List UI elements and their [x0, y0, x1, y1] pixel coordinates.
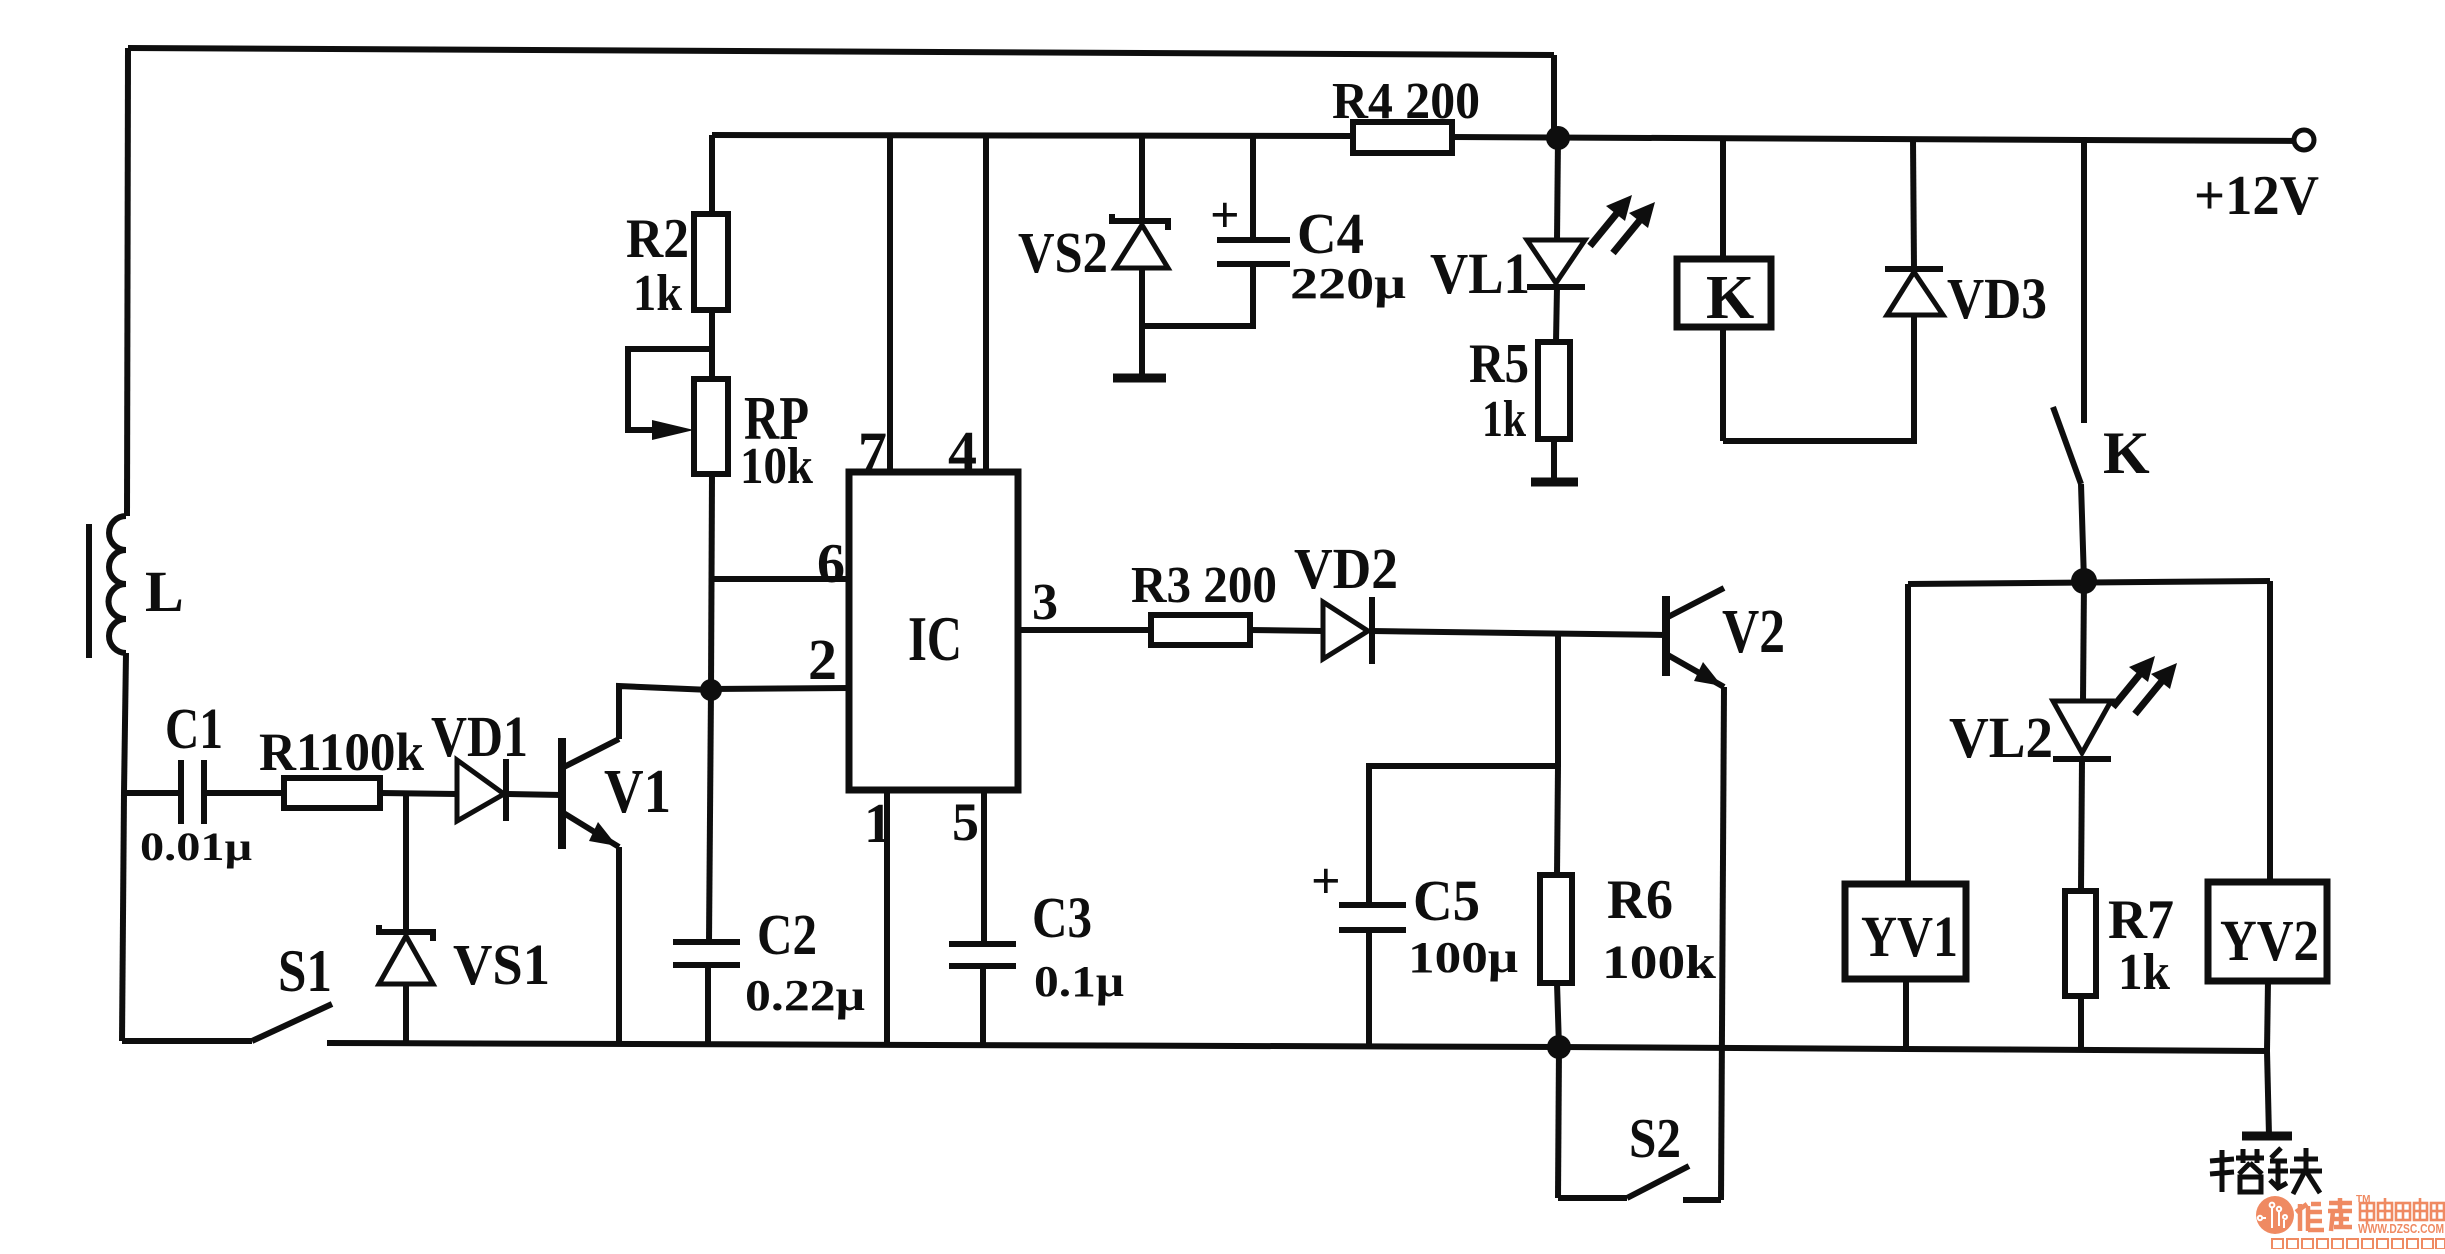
- capacitor C5 bottom plate: [1339, 927, 1406, 933]
- wire VL2 anode: [2083, 581, 2084, 701]
- wire pin 5 down to C3: [981, 790, 987, 944]
- wire V1 collector up and to node 2 junction: [619, 686, 711, 739]
- wire ground rail to chassis ground: [2267, 1051, 2269, 1136]
- svg-text:S2: S2: [1629, 1108, 1681, 1170]
- svg-text:WWW.DZSC.COM: WWW.DZSC.COM: [2358, 1221, 2444, 1236]
- wire from inductor down to C1 node: [124, 653, 126, 793]
- wire K switch to contact junction: [2081, 484, 2084, 581]
- transistor V2 emitter diagonal: [1666, 654, 1724, 687]
- svg-text:+: +: [1311, 853, 1341, 910]
- watermark weiku characters: [2296, 1198, 2352, 1231]
- LED VL1 light arrow b: [1613, 214, 1645, 253]
- switch K blade: [2053, 407, 2081, 484]
- svg-text:K: K: [1706, 264, 1754, 332]
- transistor V1 collector diagonal: [562, 739, 619, 768]
- wire VS1 tap from base wire: [403, 794, 409, 930]
- svg-text:1k: 1k: [2118, 944, 2170, 1001]
- wire pin 4: [983, 136, 989, 472]
- svg-text:VS1: VS1: [453, 932, 550, 997]
- watermark small hanzi row2: [2272, 1239, 2445, 1249]
- +12V rail left segment: [712, 135, 1353, 136]
- resistor R7: [2065, 891, 2096, 996]
- wire pin 7: [887, 135, 893, 472]
- LED VL1 light arrow a: [1590, 207, 1622, 246]
- wire pin 2: [711, 688, 849, 689]
- wire R1 to VD1: [380, 793, 457, 794]
- svg-text:+12V: +12V: [2194, 165, 2319, 227]
- node junction dot at K contact / VL2: [2071, 568, 2097, 594]
- ground rail left segment to S1: [122, 1038, 252, 1044]
- resistor R6: [1540, 875, 1572, 983]
- chassis ground text da-tie (drawn strokes): [2210, 1148, 2322, 1194]
- svg-text:VD3: VD3: [1947, 266, 2047, 331]
- wire C5 to ground rail: [1366, 930, 1372, 1047]
- wire down to YV1: [1905, 584, 1911, 884]
- svg-text:4: 4: [948, 419, 977, 484]
- wire K coil bottom link to VD3 anode: [1723, 315, 1914, 441]
- svg-text:7: 7: [858, 420, 887, 485]
- switch S2 right contact: [1683, 1197, 1721, 1203]
- resistor R5: [1538, 342, 1570, 439]
- LED VL1 cathode bar: [1527, 284, 1585, 290]
- wire RP bottom down to node 2 junction: [711, 474, 712, 690]
- wire K coil bottom to V2 collector: [1720, 327, 1726, 441]
- resistor R4: [1353, 122, 1452, 153]
- svg-text:100k: 100k: [1602, 936, 1716, 989]
- wire from C1 node down to bottom-left corner: [122, 793, 124, 1041]
- wire bracket to C5: [1369, 766, 1558, 905]
- svg-text:5: 5: [952, 792, 979, 852]
- svg-text:1k: 1k: [633, 265, 682, 322]
- capacitor C4 bottom plate: [1217, 261, 1290, 267]
- resistor R2: [694, 214, 728, 310]
- resistor R1: [284, 778, 380, 808]
- svg-text:C4: C4: [1297, 201, 1364, 266]
- wire V1 emitter down to ground rail: [616, 847, 622, 1046]
- LED VL2 light arrow b: [2135, 675, 2167, 714]
- wire YV1 to ground rail: [1903, 979, 1909, 1049]
- transistor V2 base bar: [1662, 596, 1670, 676]
- svg-text:0.22μ: 0.22μ: [745, 971, 865, 1020]
- wire junction down to C2: [709, 690, 711, 942]
- watermark small hanzi row1: [2360, 1198, 2444, 1224]
- wire bracket down to R6: [1557, 766, 1558, 875]
- capacitor C3 bottom plate: [949, 963, 1016, 969]
- svg-text:VL2: VL2: [1949, 705, 2053, 770]
- node junction dot at pin2/V1 collector/C2: [700, 679, 722, 701]
- potentiometer RP wiper arrowhead: [652, 420, 694, 440]
- chassis ground bar: [2242, 1132, 2292, 1141]
- diode VD2 triangle: [1323, 602, 1368, 659]
- wire R6 to ground rail junction: [1557, 983, 1559, 1047]
- svg-text:IC: IC: [908, 603, 962, 674]
- watermark logo circle: [2256, 1196, 2294, 1234]
- inductor L: [109, 516, 127, 653]
- wire VL1 to R5: [1556, 287, 1557, 342]
- wire VD3 cathode to +12V rail: [1913, 140, 1914, 269]
- capacitor C2 bottom plate: [673, 962, 740, 968]
- potentiometer RP wiper bracket: [628, 349, 712, 430]
- wire R5 to ground: [1551, 439, 1557, 479]
- transistor V1 emitter diagonal: [562, 812, 619, 847]
- zener diode VS1 cathode bar: [379, 925, 433, 941]
- capacitor C4 plus top plate: [1217, 237, 1290, 243]
- ground symbol below VS2: [1113, 374, 1166, 383]
- wire top rail from left corner to drop at x1554: [128, 48, 1554, 55]
- zener diode VS2 cathode bar: [1112, 214, 1168, 230]
- switch S2 blade: [1627, 1166, 1689, 1198]
- switch S1 blade: [252, 1004, 332, 1041]
- svg-text:C1: C1: [165, 696, 223, 761]
- wire IC pin 3 output: [1018, 627, 1151, 633]
- wire VD1 to V1 base: [506, 794, 562, 795]
- +12V terminal circle: [2294, 130, 2314, 150]
- LED VL2 light arrow a: [2113, 668, 2145, 707]
- wire contact crossbar to YV1 and YV2: [1908, 581, 2270, 584]
- wire VL2 to R7: [2081, 759, 2082, 891]
- svg-text:VD2: VD2: [1294, 536, 1398, 601]
- wire pin 6: [711, 576, 849, 582]
- svg-text:6: 6: [817, 533, 845, 595]
- wire C5/R6 tap from base wire: [1555, 633, 1561, 766]
- relay coil K box: [1677, 259, 1771, 327]
- wire pin 1 down to ground rail: [884, 790, 890, 1046]
- relay YV2 box: [2208, 882, 2327, 981]
- svg-text:100μ: 100μ: [1408, 933, 1518, 982]
- wire C1 to R1: [204, 790, 284, 796]
- capacitor C5 plus top plate: [1339, 902, 1406, 908]
- svg-text:V1: V1: [604, 758, 671, 826]
- wire C2 to ground rail: [705, 965, 711, 1045]
- transistor V2 emitter arrowhead: [1694, 662, 1722, 686]
- LED VL2 triangle: [2053, 701, 2111, 753]
- svg-text:0.01μ: 0.01μ: [140, 824, 252, 869]
- svg-text:VL1: VL1: [1430, 241, 1530, 306]
- diode VD3 triangle: [1887, 272, 1943, 315]
- svg-text:C3: C3: [1032, 885, 1092, 950]
- capacitor C1 left plate: [178, 760, 184, 824]
- node junction dot at R6/S2 on ground rail: [1547, 1035, 1571, 1059]
- zener diode VS1 triangle: [379, 936, 433, 984]
- diode VD1 triangle: [457, 760, 504, 821]
- svg-text:R7: R7: [2108, 889, 2174, 951]
- svg-text:220μ: 220μ: [1290, 259, 1406, 308]
- capacitor C2 top plate: [673, 939, 740, 945]
- transistor V1 base bar: [558, 738, 566, 849]
- zener diode VS2 triangle: [1115, 225, 1168, 268]
- wire R2 top connection: [709, 135, 715, 214]
- svg-text:0.1μ: 0.1μ: [1034, 957, 1124, 1006]
- svg-text:R1100k: R1100k: [259, 722, 424, 782]
- svg-text:2: 2: [808, 627, 837, 692]
- diode VD3 cathode bar: [1885, 266, 1943, 272]
- capacitor C1 left wire: [124, 790, 181, 796]
- capacitor C1 right plate: [201, 760, 207, 824]
- svg-text:YV1: YV1: [1861, 904, 1958, 969]
- wire C4 top connection: [1250, 136, 1256, 240]
- diode VD1 cathode bar: [503, 759, 509, 821]
- relay YV1 box: [1845, 884, 1966, 979]
- IC block U1: [849, 472, 1018, 790]
- resistor R3: [1151, 615, 1250, 645]
- svg-text:R2: R2: [626, 208, 689, 270]
- svg-text:R4 200: R4 200: [1332, 73, 1480, 130]
- wire VD2 to V2 base: [1372, 631, 1666, 635]
- transistor V2 collector diagonal: [1666, 588, 1724, 618]
- switch S2 left lead down: [1558, 1047, 1559, 1198]
- svg-text:L: L: [145, 559, 184, 624]
- switch S2 bottom lead: [1558, 1195, 1627, 1201]
- svg-text:3: 3: [1032, 574, 1058, 631]
- diode VD2 cathode bar: [1369, 597, 1375, 664]
- LED VL1 triangle: [1527, 240, 1585, 283]
- wire VS1 anode to ground rail: [403, 984, 409, 1042]
- wire K contact switch from +12V rail: [2081, 140, 2087, 423]
- svg-text:+: +: [1210, 187, 1240, 244]
- wire left vertical from top corner down to inductor: [127, 48, 128, 516]
- wire C3 to ground rail: [980, 966, 986, 1046]
- LED VL2 cathode bar: [2053, 756, 2111, 762]
- svg-text:V2: V2: [1722, 598, 1785, 666]
- svg-text:K: K: [2103, 420, 2150, 486]
- wire V2 emitter down through rail to S2: [1721, 687, 1724, 1200]
- svg-text:R6: R6: [1607, 869, 1673, 931]
- wire relay K coil top connection: [1720, 139, 1726, 259]
- wire YV2 to ground rail: [2267, 981, 2268, 1051]
- inductor L core bar: [86, 524, 92, 658]
- svg-text:YV2: YV2: [2220, 908, 2319, 973]
- wire R3 to VD2: [1250, 630, 1323, 631]
- wire VS2 top connection: [1139, 135, 1145, 221]
- +12V rail right segment after R4: [1452, 137, 2302, 141]
- svg-text:VD1: VD1: [431, 704, 528, 769]
- wire R2 to RP: [709, 310, 715, 379]
- potentiometer RP body: [694, 379, 728, 474]
- transistor V1 emitter arrowhead: [589, 822, 617, 846]
- svg-text:1: 1: [864, 793, 892, 855]
- svg-text:R3 200: R3 200: [1131, 557, 1277, 614]
- wire VS2 anode down: [1139, 268, 1145, 375]
- svg-text:C5: C5: [1413, 868, 1480, 933]
- node junction dot at R4 output: [1546, 126, 1570, 150]
- svg-text:1k: 1k: [1482, 391, 1526, 448]
- capacitor C3 top plate: [949, 941, 1016, 947]
- wire R7 to ground rail: [2078, 996, 2084, 1050]
- ground rail main segment: [327, 1043, 2267, 1051]
- svg-text:R5: R5: [1469, 333, 1529, 395]
- wire VS2/C4 bottom link: [1142, 266, 1253, 326]
- svg-text:C2: C2: [757, 902, 817, 967]
- svg-text:S1: S1: [278, 938, 332, 1004]
- wire VL1 anode from junction: [1557, 138, 1558, 240]
- svg-text:VS2: VS2: [1018, 220, 1108, 285]
- wire down to YV2: [2267, 581, 2273, 882]
- wire vertical drop from top rail into +12V rail junction: [1551, 55, 1557, 137]
- svg-text:10k: 10k: [740, 438, 813, 495]
- ground symbol below R5: [1531, 478, 1578, 487]
